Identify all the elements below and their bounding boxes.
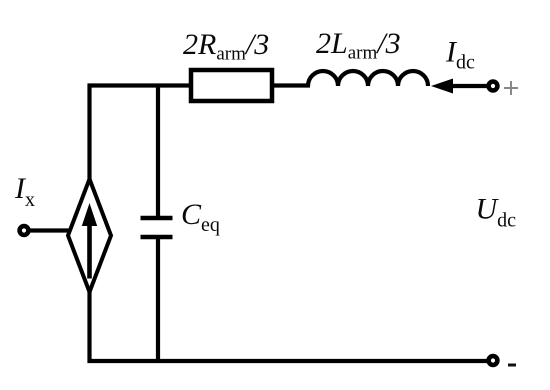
svg-text:Udc: Udc <box>476 193 517 232</box>
terminal + (top right) <box>489 82 498 91</box>
inductor 2Larm/3 <box>308 71 428 86</box>
capacitor Ceq top plate <box>141 216 173 221</box>
current source arrow head <box>82 203 97 226</box>
plus sign at + terminal <box>504 81 518 95</box>
current source arrow shaft <box>87 222 92 279</box>
minus sign at - terminal <box>508 364 516 367</box>
svg-text:2Larm/3: 2Larm/3 <box>316 27 401 64</box>
wire capacitor branch lower <box>156 236 160 363</box>
resistor R = 2Rarm/3 <box>191 70 272 101</box>
capacitor Ceq bottom plate <box>141 235 173 240</box>
svg-text:Idc: Idc <box>445 36 475 74</box>
wire arrow to + terminal <box>449 84 487 88</box>
wire capacitor branch upper <box>156 84 160 219</box>
arrowhead Idc pointing left <box>431 79 453 94</box>
wire resistor to inductor <box>272 83 310 87</box>
wire left vertical lower <box>87 290 91 363</box>
terminal - (bottom right) <box>489 356 498 365</box>
svg-text:Ceq: Ceq <box>181 198 220 236</box>
wire left vertical upper <box>87 84 91 181</box>
svg-text:Ix: Ix <box>14 172 35 211</box>
terminal Ix <box>20 226 29 235</box>
dependent current source diamond <box>68 179 111 292</box>
wire Ix terminal to source <box>28 228 70 232</box>
svg-text:2Rarm/3: 2Rarm/3 <box>183 28 269 65</box>
wire bottom horizontal <box>88 359 488 363</box>
wire top horizontal left (node to resistor) <box>88 83 192 87</box>
